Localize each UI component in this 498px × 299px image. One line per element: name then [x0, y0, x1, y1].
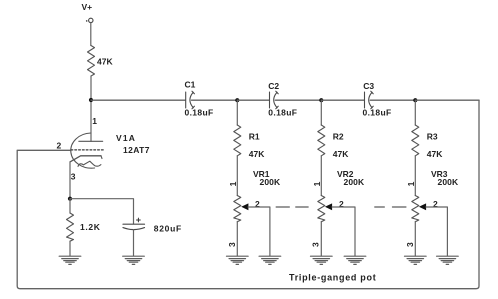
wire node3 to right corner: [415, 99, 479, 101]
ground (820uF): [123, 256, 145, 264]
capacitor C2: [270, 91, 279, 109]
svg-text:12AT7: 12AT7: [123, 145, 150, 155]
svg-text:2: 2: [339, 199, 344, 209]
wire node2 to C3: [321, 99, 364, 101]
svg-text:820uF: 820uF: [154, 223, 182, 233]
svg-text:47K: 47K: [333, 149, 349, 159]
ground (VR2 wiper): [344, 256, 366, 264]
svg-text:47K: 47K: [249, 149, 265, 159]
node 1: [235, 98, 239, 102]
capacitor C3: [365, 91, 374, 109]
svg-text:0.18uF: 0.18uF: [268, 108, 297, 118]
pot VR3: [412, 196, 419, 222]
tube V1A envelope: [71, 133, 95, 168]
svg-text:R2: R2: [333, 132, 344, 142]
wire junction down to R 1.2K: [69, 199, 71, 213]
tube cathode: [70, 156, 101, 162]
terminal V+: [89, 18, 93, 22]
wire 1.2K to ground: [69, 241, 71, 256]
svg-text:2: 2: [255, 199, 260, 209]
svg-text:V+: V+: [82, 2, 93, 12]
node cathode junction: [68, 197, 72, 201]
svg-text:200K: 200K: [260, 177, 281, 187]
svg-text:C3: C3: [363, 81, 374, 91]
svg-text:47K: 47K: [97, 57, 113, 67]
wire gang dashed 1: [276, 206, 308, 208]
wire cathode to junction: [69, 162, 71, 199]
wire gang dashed 2: [375, 206, 406, 208]
resistor 1.2K: [67, 213, 74, 241]
wiper arrow VR2: [325, 203, 332, 210]
wire 820uF to ground: [133, 230, 135, 256]
svg-text:1: 1: [312, 181, 322, 186]
wire VR1 bottom to ground: [236, 222, 238, 256]
svg-text:R1: R1: [249, 132, 260, 142]
wire V+ to R plate: [90, 23, 92, 46]
svg-text:200K: 200K: [438, 177, 459, 187]
svg-text:1: 1: [228, 181, 238, 186]
svg-text:0.18uF: 0.18uF: [185, 108, 214, 118]
svg-text:C1: C1: [185, 80, 196, 90]
wire C3 to node 3: [370, 99, 415, 101]
svg-text:200K: 200K: [344, 177, 365, 187]
node plate junction: [89, 98, 93, 102]
ground (VR3 bottom): [405, 256, 427, 264]
svg-text:47K: 47K: [427, 149, 443, 159]
tube grid (dashed): [71, 149, 105, 151]
wire VR2 bottom to ground: [320, 222, 322, 256]
svg-text:0.18uF: 0.18uF: [363, 108, 392, 118]
wiper arrow VR3: [419, 203, 426, 210]
svg-text:3: 3: [311, 242, 321, 247]
wire R to plate node: [90, 76, 92, 100]
tube heater: [78, 161, 101, 166]
wiper arrow VR1: [241, 203, 248, 210]
resistor R1: [234, 125, 241, 156]
pot VR2: [318, 196, 325, 222]
resistor R2: [318, 125, 325, 156]
capacitor C1: [186, 91, 195, 109]
wire rail node to C1: [91, 99, 185, 101]
wire R1 to VR1: [236, 156, 238, 196]
wire node1 to C2: [237, 99, 269, 101]
svg-text:1: 1: [92, 116, 97, 126]
node 3: [413, 98, 417, 102]
wire node3 to R3: [414, 100, 416, 125]
svg-text:V1A: V1A: [116, 133, 136, 143]
svg-text:1.2K: 1.2K: [80, 222, 101, 232]
svg-text:C2: C2: [268, 81, 279, 91]
pot VR1: [234, 196, 241, 222]
svg-text:Triple-ganged pot: Triple-ganged pot: [289, 273, 376, 283]
wire VR3 bottom to ground: [414, 222, 416, 256]
wire VR3 wiper to ground: [426, 207, 447, 256]
svg-text:R3: R3: [427, 132, 438, 142]
tube plate: [79, 140, 103, 142]
resistor 47K (plate): [88, 46, 95, 77]
ground (cathode R): [59, 256, 81, 264]
resistor R3: [412, 125, 419, 156]
svg-text:1: 1: [406, 181, 416, 186]
svg-text:2: 2: [433, 199, 438, 209]
svg-text:2: 2: [57, 141, 62, 151]
wire R2 to VR2: [320, 156, 322, 196]
ground (VR1 bottom): [227, 256, 249, 264]
wire cathode junction to C 820uF: [70, 199, 134, 224]
ground (VR2 bottom): [311, 256, 333, 264]
svg-text:3: 3: [227, 242, 237, 247]
svg-text:3: 3: [71, 171, 76, 181]
wire VR2 wiper to ground: [332, 207, 355, 256]
wire VR1 wiper to ground: [248, 207, 270, 256]
node 2: [319, 98, 323, 102]
wire feedback right side + bottom + left side: [17, 100, 479, 289]
ground (VR3 wiper): [437, 256, 459, 264]
wire node1 to R1: [236, 100, 238, 125]
wire node2 to R2: [320, 100, 322, 125]
capacitor 820uF: [123, 223, 145, 225]
wire plate node down to tube plate: [90, 100, 92, 141]
svg-text:3: 3: [405, 242, 415, 247]
wire C2 to node 2: [275, 99, 321, 101]
wire C1 to node 1: [192, 99, 238, 101]
ground (VR1 wiper): [259, 256, 281, 264]
wire R3 to VR3: [414, 156, 416, 196]
